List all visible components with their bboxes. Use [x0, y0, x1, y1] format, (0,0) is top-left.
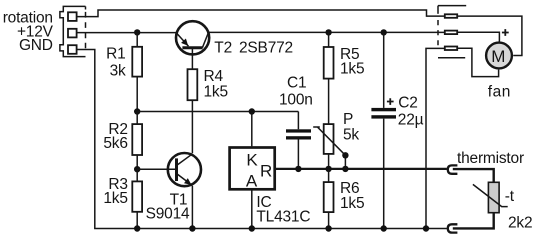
wire T2 collector rail [208, 31, 445, 33]
wire +12V rail [77, 32, 176, 34]
svg-text:T2: T2 [214, 39, 232, 56]
resistor R3 [136, 169, 138, 228]
thermistor Rt [488, 182, 499, 212]
wire GND right vertical [426, 48, 445, 228]
capacitor C2 [381, 29, 387, 35]
svg-text:thermistor: thermistor [457, 150, 524, 167]
connector K2 pin 1 [445, 14, 457, 17]
svg-text:fan: fan [488, 83, 511, 100]
wire T1 base [137, 168, 176, 170]
svg-text:A: A [246, 171, 258, 190]
svg-text:C2: C2 [398, 95, 417, 112]
svg-text:1k5: 1k5 [340, 195, 364, 212]
node R3 ground [134, 225, 140, 231]
svg-text:R1: R1 [106, 46, 125, 63]
wire node to C1 [137, 111, 298, 113]
wire fan minus [457, 48, 498, 76]
connector K1 pin 3 [68, 45, 77, 54]
plus C2 [387, 98, 394, 105]
wire R ref line [275, 168, 447, 170]
svg-text:C1: C1 [287, 74, 306, 91]
connector K2 pin 2 [445, 31, 457, 34]
node R2/R3 T1 base [134, 166, 140, 172]
svg-text:5k6: 5k6 [103, 135, 127, 152]
node T1 emitter ground [189, 225, 195, 231]
transistor T1 [168, 153, 201, 229]
resistor R4 [188, 69, 198, 100]
wire fan plus [457, 32, 499, 41]
transistor T2 [176, 21, 209, 69]
connector K1 pin 2 [68, 29, 77, 38]
potentiometer P [324, 124, 334, 154]
plus fan [502, 29, 509, 36]
wire fan tach [457, 16, 522, 55]
node GND rail [423, 225, 429, 231]
connector K1 shell [60, 6, 86, 56]
svg-text:M: M [491, 47, 505, 66]
svg-text:-t: -t [505, 188, 515, 205]
svg-text:22µ: 22µ [398, 111, 424, 128]
svg-text:2k2: 2k2 [508, 214, 532, 231]
connector K2 shell bottom [438, 57, 465, 59]
connector K2 pin 3 [445, 47, 457, 51]
node C1 ref [295, 166, 301, 172]
capacitor C1 [297, 112, 299, 169]
resistor R5 [325, 29, 331, 35]
svg-text:GND: GND [19, 37, 53, 54]
svg-text:R: R [260, 161, 272, 180]
node R1 bottom / K [134, 108, 140, 114]
svg-text:S9014: S9014 [146, 206, 190, 223]
node C2 ground [381, 225, 387, 231]
motor fan M1 [486, 43, 512, 69]
svg-text:2SB772: 2SB772 [239, 39, 293, 56]
connector K2 shell top [438, 5, 466, 7]
wire thermistor loop top [453, 169, 494, 182]
op IC TL431 box [230, 148, 275, 190]
svg-text:3k: 3k [110, 63, 126, 80]
svg-text:100n: 100n [279, 91, 313, 108]
wire K lead [251, 112, 253, 147]
svg-text:1k5: 1k5 [340, 60, 364, 77]
svg-text:TL431C: TL431C [256, 209, 310, 226]
connector J1 hook bottom [448, 224, 458, 232]
wire rotation top rail [77, 10, 445, 17]
svg-text:5k: 5k [343, 127, 359, 144]
connector J1 hook top [448, 165, 458, 173]
node R6 ground [325, 225, 331, 231]
resistor R2 [136, 112, 138, 170]
wire GND left and bottom rail [77, 50, 447, 229]
svg-text:K: K [246, 150, 258, 169]
connector K1 pin 1 [68, 12, 77, 21]
svg-text:1k5: 1k5 [204, 83, 228, 100]
node A ground [249, 225, 255, 231]
node K line [249, 108, 255, 114]
wire A lead [251, 189, 253, 228]
resistor R6 [328, 169, 330, 229]
resistor R1 [136, 32, 138, 111]
connector K2 dashed [437, 6, 439, 14]
node R1 top [134, 29, 140, 35]
svg-text:1k5: 1k5 [103, 190, 127, 207]
wire thermistor loop bottom [453, 213, 494, 229]
connector K1 mating dashed line [85, 6, 87, 9]
